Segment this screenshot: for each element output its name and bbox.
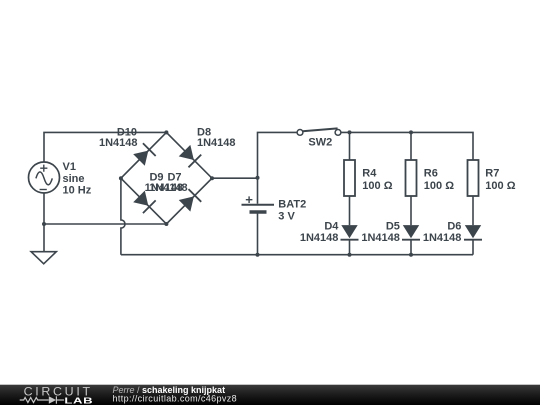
svg-text:1N4148: 1N4148 bbox=[149, 182, 188, 194]
svg-text:R6: R6 bbox=[424, 168, 438, 180]
svg-text:3 V: 3 V bbox=[278, 210, 295, 222]
svg-text:D4: D4 bbox=[324, 221, 339, 233]
svg-text:1N4148: 1N4148 bbox=[300, 232, 339, 244]
svg-text:sine: sine bbox=[63, 173, 85, 185]
svg-text:10 Hz: 10 Hz bbox=[63, 185, 92, 197]
svg-text:100 Ω: 100 Ω bbox=[485, 180, 515, 192]
svg-text:1N4148: 1N4148 bbox=[99, 137, 138, 149]
svg-text:100 Ω: 100 Ω bbox=[424, 180, 454, 192]
svg-text:1N4148: 1N4148 bbox=[197, 137, 236, 149]
svg-text:D5: D5 bbox=[386, 221, 400, 233]
svg-text:SW2: SW2 bbox=[308, 137, 332, 149]
svg-text:V1: V1 bbox=[63, 161, 76, 173]
svg-text:BAT2: BAT2 bbox=[278, 199, 306, 211]
svg-text:http://circuitlab.com/c46pvz8: http://circuitlab.com/c46pvz8 bbox=[113, 394, 238, 404]
svg-text:1N4148: 1N4148 bbox=[361, 232, 400, 244]
svg-text:R7: R7 bbox=[485, 168, 499, 180]
svg-text:1N4148: 1N4148 bbox=[423, 232, 462, 244]
svg-text:100 Ω: 100 Ω bbox=[362, 180, 392, 192]
svg-text:D6: D6 bbox=[447, 221, 461, 233]
svg-text:LAB: LAB bbox=[64, 397, 93, 405]
svg-text:R4: R4 bbox=[362, 168, 377, 180]
